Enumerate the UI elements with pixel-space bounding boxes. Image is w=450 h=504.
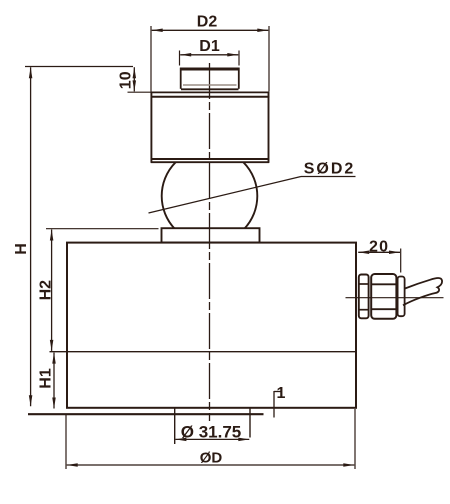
ball (spherical bearing) bbox=[162, 148, 258, 244]
cap left side bbox=[150, 92, 152, 163]
dimension OD extension right bbox=[354, 409, 356, 469]
svg-text:H2: H2 bbox=[37, 280, 54, 301]
weld line bbox=[50, 351, 357, 353]
dimension H line bbox=[30, 67, 32, 406]
loading button left side bbox=[180, 68, 182, 89]
loading button top face bbox=[180, 68, 240, 71]
cap top chamfer line bbox=[151, 96, 270, 98]
nut upper line bbox=[371, 283, 396, 285]
top extension line (button top) bbox=[25, 66, 133, 68]
loading button bottom edge bbox=[181, 88, 239, 90]
SOD2 leader line bbox=[149, 177, 302, 214]
cable bbox=[403, 278, 442, 305]
dimension 1 tick line bbox=[273, 391, 275, 418]
svg-text:Ø 31.75: Ø 31.75 bbox=[181, 422, 242, 441]
svg-text:ØD: ØD bbox=[200, 450, 223, 467]
svg-text:20: 20 bbox=[369, 238, 389, 255]
bottom boss right side / dim extension bbox=[249, 408, 251, 438]
dimension 10 bottom extension bbox=[128, 91, 152, 93]
thread relief line bbox=[183, 84, 237, 86]
SOD2 underline bbox=[301, 176, 356, 178]
cable gland nut bbox=[371, 274, 396, 319]
dimension D1 line bbox=[180, 54, 238, 56]
dimension D2 line bbox=[152, 29, 269, 31]
seat block bbox=[162, 228, 260, 242]
dimension D2 extension right bbox=[268, 26, 270, 92]
nut lower line bbox=[371, 308, 396, 310]
dimension 31.75 line bbox=[175, 438, 249, 440]
cap right side bbox=[268, 92, 270, 163]
cable gland washer bbox=[359, 275, 369, 319]
main body bbox=[67, 243, 356, 408]
svg-text:H1: H1 bbox=[37, 368, 54, 389]
gland ferrule bbox=[398, 277, 405, 317]
svg-text:D2: D2 bbox=[197, 13, 218, 30]
svg-text:10: 10 bbox=[118, 71, 135, 89]
cap bottom chamfer line bbox=[151, 158, 269, 160]
dimension H2 line bbox=[51, 230, 53, 351]
gland centerline bbox=[346, 297, 444, 299]
dimension D1 extension right bbox=[238, 51, 240, 66]
cap bottom face line bbox=[151, 161, 269, 163]
svg-text:D1: D1 bbox=[199, 38, 220, 55]
dimension OD extension left bbox=[65, 415, 67, 469]
seat top extension line bbox=[46, 228, 159, 230]
dimension H1 line bbox=[53, 353, 55, 409]
dimension D1 extension left bbox=[179, 51, 181, 66]
dimension D2 extension left bbox=[150, 26, 152, 92]
loading button right side bbox=[238, 68, 240, 89]
bottom boss left side / dim extension bbox=[174, 408, 176, 444]
dimension 20 line bbox=[358, 251, 400, 253]
svg-text:H: H bbox=[13, 243, 30, 255]
svg-text:SØD2: SØD2 bbox=[304, 160, 356, 177]
dimension OD line bbox=[67, 464, 355, 466]
svg-text:1: 1 bbox=[277, 385, 286, 402]
cap top face line bbox=[151, 91, 270, 93]
washer lower line bbox=[359, 309, 369, 311]
dimension 1 stub bbox=[274, 391, 282, 393]
ground line bbox=[28, 413, 264, 415]
dimension 20 right extension bbox=[400, 249, 402, 273]
washer upper line bbox=[359, 283, 369, 285]
dimension 10 line bbox=[133, 67, 135, 91]
centerline vertical axis bbox=[209, 63, 211, 421]
